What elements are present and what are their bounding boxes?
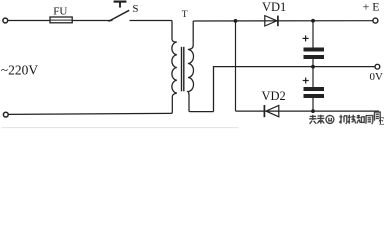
svg-text:VD2: VD2 xyxy=(262,89,286,103)
svg-text:FU: FU xyxy=(53,6,67,18)
svg-text:+ E: + E xyxy=(363,0,380,13)
svg-text:VD1: VD1 xyxy=(262,0,286,14)
svg-text:S: S xyxy=(132,3,138,15)
svg-text:T: T xyxy=(182,10,188,20)
svg-text:0V: 0V xyxy=(370,71,384,83)
svg-text:~220V: ~220V xyxy=(1,63,39,78)
